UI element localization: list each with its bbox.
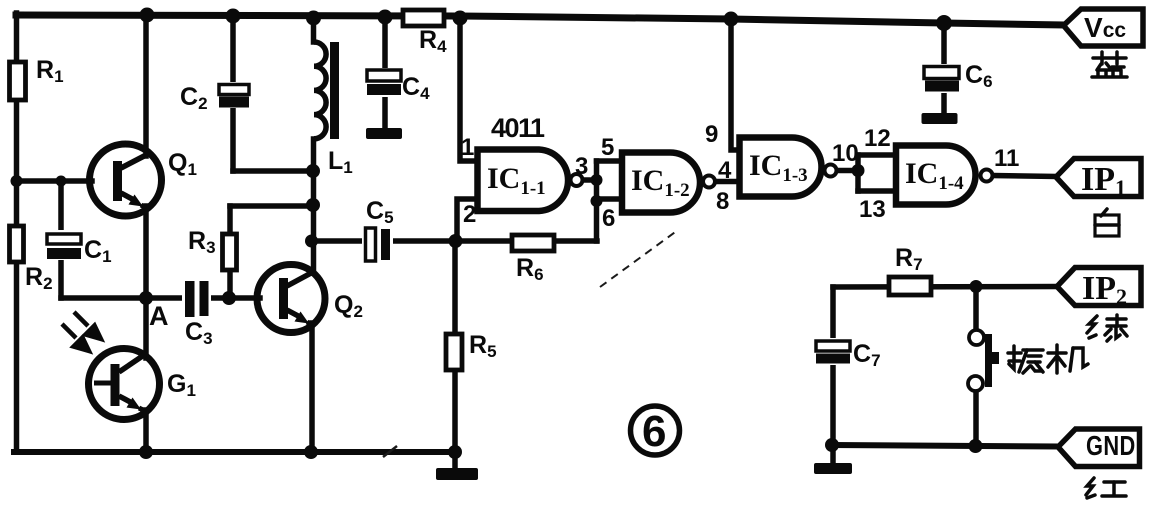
svg-text:13: 13: [859, 196, 886, 223]
svg-text:6: 6: [642, 407, 666, 456]
svg-text:11: 11: [994, 145, 1019, 172]
svg-text:3: 3: [575, 153, 588, 180]
svg-text:2: 2: [463, 201, 476, 228]
svg-text:6: 6: [602, 205, 615, 232]
svg-text:8: 8: [716, 188, 729, 215]
svg-text:10: 10: [832, 140, 859, 167]
svg-text:4: 4: [718, 157, 732, 184]
svg-text:1: 1: [461, 134, 474, 161]
svg-text:5: 5: [601, 134, 614, 161]
svg-text:12: 12: [864, 125, 891, 152]
svg-text:4011: 4011: [491, 113, 545, 143]
svg-text:9: 9: [705, 121, 718, 148]
svg-text:GND: GND: [1086, 430, 1136, 461]
svg-text:A: A: [149, 301, 169, 331]
